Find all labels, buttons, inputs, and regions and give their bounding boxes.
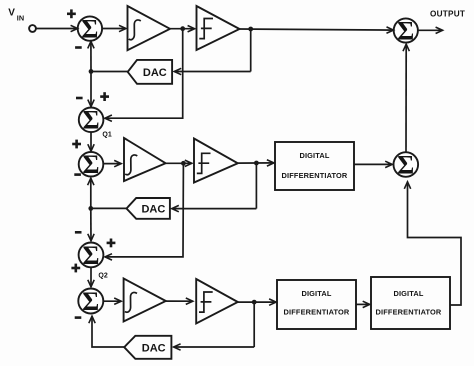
integrator A1 xyxy=(128,6,171,50)
quantizer C2 xyxy=(194,139,238,183)
minus sign Q2 top xyxy=(75,231,82,234)
summer Q2 xyxy=(79,241,104,270)
wire S2 to integrator A2 xyxy=(103,163,121,165)
wire C1 output down to DAC1 xyxy=(250,29,252,72)
junction dot DAC2 feedback node xyxy=(88,206,93,211)
integrator A2 xyxy=(124,138,166,181)
minus sign S2 bottom xyxy=(74,173,81,176)
junction dot DAC1 feedback node xyxy=(89,69,94,74)
svg-text:DAC: DAC xyxy=(142,343,166,355)
junction dot C1 output xyxy=(248,27,253,32)
plus sign Q2 right xyxy=(107,239,116,248)
wire C3 output down to DAC3 xyxy=(253,302,255,347)
svg-text:DIGITAL: DIGITAL xyxy=(301,289,331,298)
wire S1 to integrator A1 xyxy=(102,28,126,30)
minus sign Q1 top xyxy=(76,97,83,100)
wire into DAC3 xyxy=(174,346,255,348)
svg-text:Σ: Σ xyxy=(397,16,414,45)
wire A1 to quantizer C1 xyxy=(170,28,195,30)
svg-text:Q1: Q1 xyxy=(102,132,111,139)
digital differentiator B2 xyxy=(277,280,356,329)
wire DAC3 output up into S3 xyxy=(92,316,124,347)
junction dot A1 output xyxy=(180,26,185,31)
wire A3 to quantizer C3 xyxy=(166,300,193,302)
wire feedback up into S2 xyxy=(90,178,92,208)
DAC D2 xyxy=(127,198,170,219)
plus sign S2 top xyxy=(72,140,81,149)
wire C2 output down to DAC2 xyxy=(255,163,257,209)
svg-text:DIGITAL: DIGITAL xyxy=(299,151,329,160)
wire B2 to B3 xyxy=(356,303,370,305)
summer S2 xyxy=(79,150,104,179)
wire S5 up into S4 xyxy=(405,44,407,152)
DAC D1 xyxy=(128,60,172,84)
summer S1 xyxy=(78,15,102,44)
svg-text:Σ: Σ xyxy=(397,150,414,179)
svg-text:Σ: Σ xyxy=(83,241,100,270)
wire C1 to output summer S4 xyxy=(240,29,394,30)
svg-text:Q2: Q2 xyxy=(98,272,107,279)
input terminal circle xyxy=(29,25,36,32)
summer S4 output xyxy=(394,16,418,45)
wire A2 to quantizer C2 xyxy=(166,162,192,164)
wire A1 tap down to Q1 xyxy=(105,29,183,119)
minus sign S1 feedback xyxy=(75,46,82,49)
svg-text:DAC: DAC xyxy=(143,67,167,79)
wire C3 to digital differentiator B2 xyxy=(238,301,276,303)
svg-text:OUTPUT: OUTPUT xyxy=(430,9,465,18)
svg-text:Σ: Σ xyxy=(81,15,98,44)
wire S4 to OUTPUT xyxy=(418,29,443,31)
wire Q2 to S3 xyxy=(90,267,92,286)
junction dot A2 output xyxy=(181,161,186,166)
svg-text:Σ: Σ xyxy=(83,150,100,179)
plus sign Q1 right xyxy=(100,92,109,101)
svg-text:V: V xyxy=(8,8,15,19)
DAC D3 xyxy=(124,336,171,359)
summer S3 xyxy=(78,287,103,316)
wire feedback down into Q2 xyxy=(90,208,92,240)
integrator A3 xyxy=(124,279,166,322)
node VIN label xyxy=(8,8,24,23)
svg-text:DIFFERENTIATOR: DIFFERENTIATOR xyxy=(282,171,348,180)
plus sign S1 input xyxy=(67,9,76,18)
wire Q1 to S2 xyxy=(90,132,92,151)
wire DAC2 output to node xyxy=(91,207,127,209)
svg-text:DIGITAL: DIGITAL xyxy=(393,289,423,298)
svg-text:Σ: Σ xyxy=(83,106,100,135)
svg-text:DAC: DAC xyxy=(141,204,165,216)
wire S3 to integrator A3 xyxy=(103,300,121,302)
svg-text:Σ: Σ xyxy=(82,287,99,316)
wire C2 to digital differentiator B1 xyxy=(238,162,274,164)
wire feedback down into Q1 xyxy=(90,71,92,106)
summer S5 xyxy=(394,150,419,179)
svg-text:IN: IN xyxy=(17,13,24,22)
wire DAC1 output to node xyxy=(91,71,128,73)
wire A2 tap down to Q2 xyxy=(105,163,183,257)
junction dot C2 output xyxy=(254,161,259,166)
digital differentiator B1 xyxy=(275,142,354,190)
summer Q1 xyxy=(79,106,104,135)
wire feedback up into S1 xyxy=(90,41,92,71)
digital differentiator B3 xyxy=(371,277,450,329)
wire B3 up into S5 xyxy=(408,182,462,305)
quantizer C1 xyxy=(197,6,240,50)
wire into DAC2 xyxy=(172,208,257,210)
junction dot C3 output xyxy=(252,300,257,305)
wire B1 to output summer S5 xyxy=(354,163,392,165)
wire into DAC1 xyxy=(174,71,251,73)
wire VIN to S1 xyxy=(36,28,77,30)
svg-text:DIFFERENTIATOR: DIFFERENTIATOR xyxy=(376,307,442,316)
svg-text:DIFFERENTIATOR: DIFFERENTIATOR xyxy=(284,308,350,317)
minus sign S3 bottom xyxy=(75,316,82,319)
plus sign S3 top xyxy=(71,264,80,273)
quantizer C3 xyxy=(196,279,238,324)
